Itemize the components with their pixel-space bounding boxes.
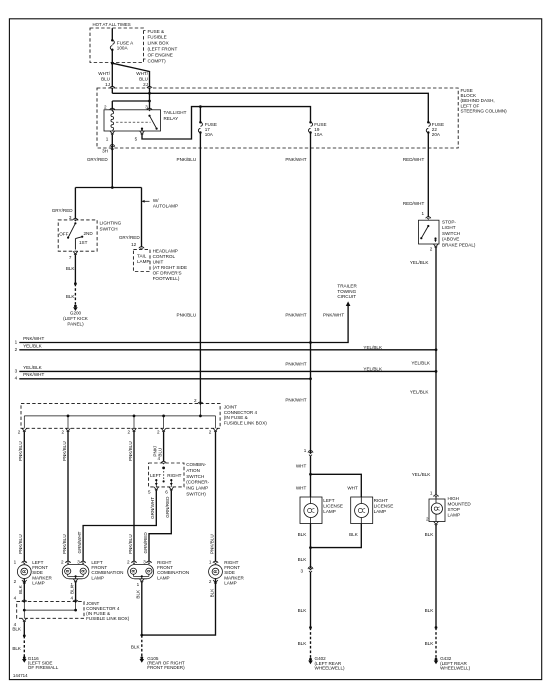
HMSL pin 1: [430, 491, 439, 498]
svg-text:WHT: WHT: [296, 485, 307, 490]
jc4 upper input pin 2: [194, 398, 203, 405]
svg-text:RED/WHT: RED/WHT: [403, 157, 425, 162]
jc4 lower output pin 4: [14, 618, 27, 627]
svg-text:PNK/BLU: PNK/BLU: [62, 534, 67, 554]
fuse A 100A: [110, 39, 134, 51]
jc4 lower input pin 4a: [22, 600, 27, 603]
svg-text:2: 2: [104, 104, 107, 109]
label RED/WHT (fuse 22): [403, 157, 425, 162]
svg-text:2J: 2J: [143, 82, 148, 87]
svg-text:2: 2: [209, 430, 212, 435]
svg-text:GRY/RED: GRY/RED: [52, 208, 74, 213]
label G200 (LEFT KICK PANEL): [63, 311, 89, 327]
label LEFT FRONT SIDE MARKER LAMP: [32, 560, 52, 586]
ground G432: [434, 658, 439, 664]
wire to left ground splice: [23, 622, 25, 636]
wire fuse19 out: [310, 133, 312, 343]
junction bus4/fuse19: [309, 377, 312, 380]
svg-text:ATION: ATION: [186, 468, 200, 473]
svg-text:PNK/BLU: PNK/BLU: [62, 441, 67, 461]
label LIGHTING SWITCH: [100, 220, 122, 231]
diagram id 144714: [13, 673, 28, 678]
svg-text:FUSE &: FUSE &: [148, 29, 165, 34]
wire coil tie: [112, 100, 149, 102]
bus 2 YEL/BLK: [15, 343, 436, 352]
svg-text:BLK: BLK: [425, 608, 435, 613]
junction bus1/fuse19: [309, 341, 312, 344]
svg-text:3H: 3H: [102, 148, 108, 153]
svg-text:TOWING: TOWING: [337, 289, 356, 294]
HMSL pin 2: [426, 517, 438, 526]
svg-text:FRONT FENDER): FRONT FENDER): [147, 665, 185, 670]
lighting switch contacts: [75, 236, 83, 250]
wire feed bus to fuse 22: [112, 93, 428, 122]
jc4 junction d: [199, 415, 202, 418]
wire fuse17 out: [199, 133, 201, 404]
connector 1 (license feed): [304, 448, 313, 456]
svg-text:BLK: BLK: [425, 532, 435, 537]
svg-text:LAMP: LAMP: [374, 509, 387, 514]
svg-text:LEFT: LEFT: [323, 498, 334, 503]
lighting switch pin 7: [69, 251, 78, 260]
label YEL/BLK (on bus 2): [363, 345, 383, 350]
wire to G105 (dashed): [141, 635, 143, 657]
svg-text:FUSIBLE: FUSIBLE: [148, 35, 167, 40]
svg-text:2: 2: [127, 559, 130, 564]
svg-text:YEL/BLK: YEL/BLK: [410, 390, 430, 395]
wire to G432 (dashed): [435, 628, 437, 659]
wire fuse22 out: [427, 133, 429, 218]
headlamp control unit pin 12: [131, 242, 144, 249]
label GRY/RED (3H): [87, 157, 109, 162]
label BLK (license mid): [298, 608, 308, 613]
wire BLK LF combination: [70, 583, 76, 602]
svg-text:STOP-: STOP-: [442, 220, 456, 225]
relay coil: [111, 111, 114, 130]
wire stoplight out: [435, 248, 437, 350]
svg-text:PNK/BLU: PNK/BLU: [177, 157, 197, 162]
svg-text:LAMP: LAMP: [323, 509, 336, 514]
svg-text:1: 1: [430, 491, 433, 496]
ground G200: [73, 305, 78, 311]
LF combination pin 3: [77, 559, 85, 564]
svg-text:LICENSE: LICENSE: [323, 503, 343, 508]
svg-text:3: 3: [77, 559, 80, 564]
svg-text:RIGHT: RIGHT: [374, 498, 388, 503]
jc4 lower junction a: [23, 609, 26, 612]
wire stoplight through buses: [435, 350, 437, 495]
svg-text:ING LAMP: ING LAMP: [186, 486, 208, 491]
RF side marker pin 1: [209, 559, 218, 564]
label YEL/BLK (HMSL): [412, 472, 432, 477]
junction license grounds: [309, 546, 312, 549]
wire trailer branch: [311, 306, 349, 343]
svg-text:YEL/BLK: YEL/BLK: [23, 343, 43, 348]
wire splice to ground (dashed): [74, 284, 76, 305]
label FUSE BLOCK: [461, 88, 508, 114]
svg-text:PNK/BLU: PNK/BLU: [18, 441, 23, 461]
svg-text:BLU: BLU: [139, 76, 148, 81]
bus 1 PNK/WHT: [15, 336, 311, 345]
svg-text:2: 2: [426, 517, 429, 522]
LF combination pin 1: [70, 579, 78, 587]
svg-text:BRAKE PEDAL): BRAKE PEDAL): [442, 242, 476, 247]
label PNK/WHT (between buses): [285, 361, 306, 366]
svg-text:GRN/RED: GRN/RED: [143, 532, 148, 554]
LF side marker pin 2: [14, 579, 27, 584]
combination switch contact right: [170, 479, 173, 487]
wire fuse19 through buses: [310, 343, 312, 454]
svg-text:3: 3: [69, 215, 72, 220]
wire HMSL ground: [435, 526, 437, 628]
label LEFT LICENSE LAMP: [323, 498, 343, 514]
jc4 output pin 2d: [157, 428, 166, 434]
tail lamp box (dashed): [133, 249, 150, 271]
svg-text:YEL/BLK: YEL/BLK: [363, 345, 383, 350]
splice left grounds: [23, 634, 26, 637]
svg-text:LAMP: LAMP: [137, 259, 150, 264]
svg-text:2: 2: [430, 246, 433, 251]
svg-text:FUSIBLE LINK BOX): FUSIBLE LINK BOX): [224, 421, 268, 426]
wire to G116 (dashed): [23, 636, 25, 657]
joint connector 4 upper (dashed box): [21, 404, 220, 429]
jc4 lower junction b: [74, 609, 77, 612]
svg-text:(CORNER-: (CORNER-: [186, 480, 209, 485]
svg-text:PNK/WHT: PNK/WHT: [285, 312, 306, 317]
svg-text:UNIT: UNIT: [153, 259, 164, 264]
wire BLK RF marker: [142, 579, 216, 636]
relay pin 2: [104, 104, 115, 110]
junction branch header: [111, 186, 114, 189]
svg-text:GRN/RED: GRN/RED: [165, 496, 170, 518]
stoplight switch pin 1: [421, 211, 430, 219]
svg-text:PNK/BLU: PNK/BLU: [128, 534, 133, 554]
wire right license ground: [311, 524, 362, 548]
RF combination pin 2: [127, 559, 137, 564]
svg-text:5: 5: [135, 137, 138, 142]
left front combination lamp: [62, 565, 89, 579]
svg-text:20A: 20A: [432, 132, 441, 137]
jc4 output pin 2b: [61, 428, 70, 434]
left license lamp: [300, 497, 322, 524]
svg-text:5: 5: [148, 490, 151, 495]
svg-text:7: 7: [69, 255, 72, 260]
svg-text:CONNECTOR 4: CONNECTOR 4: [224, 410, 258, 415]
svg-text:4: 4: [14, 596, 17, 601]
svg-text:12: 12: [131, 242, 137, 247]
label WHT/BLU 2J: [136, 71, 148, 87]
label RED/WHT (stoplight): [403, 201, 425, 206]
svg-text:BLK: BLK: [136, 589, 141, 599]
wire fuse A top: [111, 28, 113, 40]
svg-text:1: 1: [304, 448, 307, 453]
wire to right license lamp: [311, 474, 362, 497]
trailer towing arrow: [346, 301, 351, 306]
junction license split: [309, 473, 312, 476]
svg-text:BLK: BLK: [298, 532, 308, 537]
svg-text:BLK: BLK: [66, 294, 76, 299]
junction bus2/stoplight: [435, 348, 438, 351]
label TRAILER TOWING CIRCUIT: [337, 284, 357, 300]
jc4 junction a: [67, 415, 70, 418]
junction fuse17 feed: [199, 105, 202, 108]
combination switch pin 4: [157, 456, 166, 464]
label TAILLIGHT RELAY: [164, 110, 187, 121]
svg-text:PNK/BLU: PNK/BLU: [177, 312, 197, 317]
label WHT (left license): [296, 485, 307, 490]
label PNK/WHT (above connector 1): [285, 398, 306, 403]
svg-text:GRY/RED: GRY/RED: [87, 157, 109, 162]
label YEL/BLK (on bus 3): [363, 367, 383, 372]
svg-text:CIRCUIT: CIRCUIT: [337, 294, 356, 299]
svg-text:PNK/WHT: PNK/WHT: [285, 361, 306, 366]
label 2ND: [84, 231, 94, 236]
svg-text:SWITCH: SWITCH: [100, 226, 118, 231]
svg-text:3: 3: [300, 568, 303, 573]
svg-text:YEL/BLK: YEL/BLK: [410, 260, 430, 265]
svg-text:144714: 144714: [13, 673, 28, 678]
svg-text:(ABOVE: (ABOVE: [442, 237, 459, 242]
svg-text:PNK/WHT: PNK/WHT: [285, 398, 306, 403]
label W/ AUTOLAMP: [142, 198, 179, 209]
svg-text:1: 1: [106, 137, 109, 142]
relay link (dashed): [116, 121, 151, 123]
svg-text:LAMP: LAMP: [224, 581, 237, 586]
label BLK (lighting switch): [66, 266, 76, 271]
svg-text:GRN/WHT: GRN/WHT: [150, 497, 155, 519]
label 4 (LF marker): [14, 596, 17, 601]
label G116 (LEFT SIDE OF FIREWALL: [28, 656, 59, 670]
stoplight switch pin 2: [430, 244, 438, 251]
left front side marker lamp: [17, 565, 31, 579]
svg-text:RED/WHT: RED/WHT: [403, 201, 425, 206]
svg-text:RELAY: RELAY: [164, 116, 179, 121]
label HIGH MOUNTED STOP LAMP: [448, 496, 472, 517]
relay switch arm: [148, 115, 157, 130]
label LEFT FRONT COMBINATION LAMP: [91, 560, 123, 581]
RF combination pin 3: [143, 559, 151, 564]
ground G116: [22, 656, 27, 662]
label YEL/BLK (between buses): [411, 360, 431, 365]
svg-text:RIGHT: RIGHT: [167, 473, 181, 478]
svg-text:4: 4: [157, 456, 160, 461]
svg-text:GRN/WHT: GRN/WHT: [77, 531, 82, 553]
svg-text:OFF: OFF: [59, 231, 68, 236]
svg-text:LAMP: LAMP: [448, 512, 461, 517]
jc4 lower input pin 4b: [70, 596, 78, 603]
svg-text:PNK/BLU: PNK/BLU: [128, 441, 133, 461]
label G432 (LEFT REAR WHEELWELL): [440, 656, 471, 670]
svg-text:COMBIN-: COMBIN-: [186, 462, 206, 467]
stoplight contact pin 2: [434, 237, 437, 242]
svg-text:LAMP: LAMP: [32, 581, 45, 586]
wire to 1J: [111, 63, 113, 87]
svg-text:2: 2: [194, 398, 197, 403]
label GRY/RED (tail lamp): [119, 235, 141, 240]
label COMBINATION SWITCH: [186, 462, 209, 497]
label G402 (LEFT REAR WHEELWELL) left: [315, 656, 346, 670]
label LEFT: [150, 473, 161, 478]
svg-text:HOT AT ALL TIMES: HOT AT ALL TIMES: [93, 22, 131, 27]
svg-text:HEADLAMP: HEADLAMP: [153, 248, 178, 253]
svg-text:WHT: WHT: [296, 464, 307, 469]
label JOINT CONNECTOR 4 (lower): [86, 601, 130, 621]
LF side marker pin 1: [14, 559, 27, 564]
svg-text:BLK: BLK: [66, 266, 76, 271]
junction coil tie: [148, 100, 151, 103]
label PNK/BLU (fuse 17): [177, 157, 197, 162]
label 1ST: [79, 240, 88, 245]
junction RF grounds: [140, 634, 143, 637]
svg-text:AUTOLAMP: AUTOLAMP: [153, 203, 178, 208]
svg-text:2: 2: [127, 430, 130, 435]
svg-text:2: 2: [18, 430, 21, 435]
wire PNK/BLU to LF marker: [18, 432, 24, 562]
label RIGHT FRONT SIDE MARKER LAMP: [224, 560, 244, 586]
svg-text:10A: 10A: [205, 132, 214, 137]
label WHT (license feed): [296, 464, 307, 469]
relay pin 1: [106, 131, 115, 142]
fuse 17 10A: [198, 121, 217, 137]
label BLK (right license): [349, 532, 359, 537]
label BLK (below junction): [298, 557, 308, 562]
svg-text:BLK: BLK: [298, 641, 308, 646]
lighting switch arm: [67, 222, 77, 239]
wire branch header: [75, 187, 141, 189]
svg-text:TAIL: TAIL: [137, 253, 147, 258]
svg-text:BLK: BLK: [131, 644, 141, 649]
svg-text:OF ENGINE: OF ENGINE: [148, 52, 173, 57]
label BLK (left grounds): [12, 626, 22, 631]
label RIGHT: [167, 473, 181, 478]
svg-text:WHT/: WHT/: [136, 71, 148, 76]
svg-text:BLK: BLK: [298, 608, 308, 613]
svg-text:BLK: BLK: [12, 646, 22, 651]
wire to 2J (diagonal): [112, 63, 149, 87]
svg-text:4: 4: [70, 596, 73, 601]
svg-text:1: 1: [209, 559, 212, 564]
relay pin 3: [145, 104, 152, 110]
wire 3H down: [111, 148, 113, 188]
svg-text:100A: 100A: [117, 46, 129, 51]
junction feed/2J: [148, 92, 151, 95]
svg-text:3: 3: [15, 369, 18, 374]
svg-text:3: 3: [143, 559, 146, 564]
svg-text:YEL/BLK: YEL/BLK: [363, 367, 383, 372]
splice license ground: [309, 626, 312, 629]
svg-text:PNK/WHT: PNK/WHT: [23, 372, 44, 377]
svg-text:LIGHT: LIGHT: [442, 225, 456, 230]
connector 3H: [102, 144, 115, 153]
RF combination pin 1: [137, 579, 145, 587]
svg-text:WHEELWELL): WHEELWELL): [315, 666, 346, 671]
svg-text:PNK/WHT: PNK/WHT: [23, 336, 44, 341]
junction below fuse A: [111, 62, 114, 65]
label STOP-LIGHT SWITCH: [442, 220, 476, 248]
svg-text:LAMP: LAMP: [91, 575, 104, 580]
svg-text:PNK/BLU: PNK/BLU: [209, 534, 214, 554]
label HEADLAMP CONTROL UNIT: [153, 248, 187, 281]
svg-text:LAMP: LAMP: [157, 575, 170, 580]
svg-text:LIGHTING: LIGHTING: [100, 220, 122, 225]
wire GRN/WHT: [77, 491, 156, 562]
relay pin 5: [135, 131, 145, 142]
wire PNK/BLU to LF combination: [62, 432, 68, 562]
label PNK/WHT (trailer): [323, 312, 344, 317]
wire fuse17 drop: [199, 107, 201, 123]
label PNK/WHT (mid): [285, 312, 306, 317]
combination switch pin 6: [165, 487, 173, 495]
svg-text:WHT/: WHT/: [98, 71, 110, 76]
label YEL/BLK (stoplight out): [410, 260, 430, 265]
fuse 22 20A: [426, 121, 444, 137]
svg-text:LINK BOX: LINK BOX: [148, 41, 169, 46]
wire WHT license feed: [310, 456, 312, 474]
jc4 junction b: [133, 415, 136, 418]
jc4 output pin 2a: [18, 428, 27, 434]
svg-text:WHT: WHT: [347, 485, 358, 490]
wire relay pin1 to 3H: [111, 135, 113, 148]
svg-text:LICENSE: LICENSE: [374, 503, 394, 508]
connector 1J: [110, 86, 115, 89]
svg-text:HIGH: HIGH: [448, 496, 459, 501]
svg-text:2: 2: [209, 579, 212, 584]
connector 2J: [147, 86, 152, 89]
label PNK/WHT (fuse 19): [285, 157, 306, 162]
svg-text:LEFT: LEFT: [150, 473, 161, 478]
svg-text:COMPT): COMPT): [148, 58, 167, 63]
jc4 output pin 2e: [209, 428, 218, 434]
svg-text:1: 1: [15, 340, 18, 345]
svg-text:BLK: BLK: [18, 584, 23, 594]
svg-text:BLK: BLK: [70, 584, 75, 594]
svg-text:2: 2: [61, 430, 64, 435]
svg-text:1ST: 1ST: [79, 240, 88, 245]
svg-text:YEL/BLK: YEL/BLK: [411, 360, 431, 365]
svg-text:FOOTWELL): FOOTWELL): [153, 276, 180, 281]
svg-text:YEL/BLK: YEL/BLK: [412, 472, 432, 477]
label BLK (G116): [12, 646, 22, 651]
label BLK (G432): [425, 641, 435, 646]
wire PNK/BLU to combination switch: [153, 432, 164, 461]
svg-text:TAILLIGHT: TAILLIGHT: [164, 110, 187, 115]
svg-text:BLU: BLU: [101, 76, 110, 81]
right front side marker lamp: [209, 565, 223, 579]
fuse block (dashed box): [97, 88, 458, 148]
label FUSE & FUSIBLE LINK BOX: [144, 29, 178, 64]
wire PNK/BLU to RF combination: [128, 432, 134, 562]
svg-text:PNK/BLU: PNK/BLU: [18, 534, 23, 554]
jc4 upper internal bus: [24, 404, 215, 429]
jc4 lower internal bus: [24, 602, 75, 619]
svg-text:GRY/RED: GRY/RED: [119, 235, 141, 240]
wire pin7 to splice: [74, 255, 76, 284]
splice S1: [74, 282, 77, 285]
lighting switch pin 3: [69, 215, 78, 221]
label WHT/BLU 1J: [98, 71, 110, 87]
wire license ground down: [310, 573, 312, 628]
wire to left license lamp: [310, 474, 312, 497]
svg-text:G200: G200: [70, 311, 82, 316]
svg-text:1: 1: [14, 559, 17, 564]
svg-text:(AT RIGHT SIDE: (AT RIGHT SIDE: [153, 265, 187, 270]
wire to headlamp control unit: [141, 188, 143, 248]
svg-text:PNK/WHT: PNK/WHT: [285, 157, 306, 162]
ground G402 (license): [308, 658, 313, 664]
label GRY/RED (lighting switch): [52, 208, 74, 213]
wire to connector 3: [310, 548, 312, 569]
wire 2J to relay pin 3: [149, 88, 151, 109]
